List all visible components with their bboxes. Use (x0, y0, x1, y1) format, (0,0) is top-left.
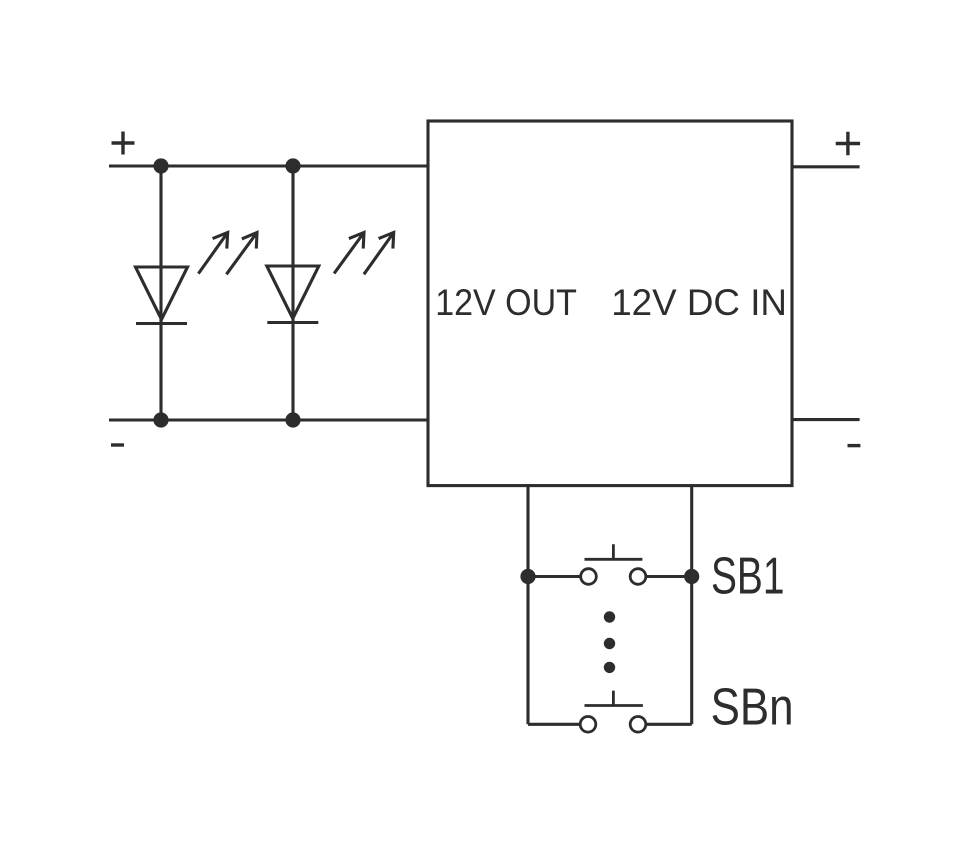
LED D2 cathode bar (267, 321, 318, 324)
minus terminal right (848, 444, 861, 447)
LED D1 light arrow 1 (198, 233, 227, 274)
node junction SB1 left (520, 569, 535, 584)
ellipsis dot 1 (604, 611, 615, 622)
plus terminal left (112, 132, 135, 155)
minus terminal left (111, 443, 124, 446)
LED D2 light arrow 2 (364, 233, 394, 275)
node junction top rail at LED2 (285, 158, 300, 173)
wire right rail bottom (792, 418, 860, 421)
wire left drop from box (526, 486, 529, 725)
wire LED1 vertical (159, 166, 162, 420)
wire SBn row left segment (528, 723, 580, 726)
pushbutton SB1 contact right (630, 569, 646, 585)
LED D2 light arrow 1 (334, 233, 364, 274)
pushbutton SBn contact right (630, 717, 646, 733)
svg-text:SB1: SB1 (711, 548, 785, 606)
wire SB1 row left segment (528, 575, 581, 578)
pushbutton SBn contact left (580, 717, 596, 733)
wire right drop from box (690, 486, 693, 725)
pushbutton SB1 actuator (585, 544, 643, 559)
wire right rail top (792, 165, 860, 168)
plus terminal right (836, 132, 860, 156)
ellipsis dot 2 (604, 638, 615, 649)
node junction bottom rail at LED2 (285, 412, 300, 427)
svg-text:12V OUT: 12V OUT (435, 282, 577, 323)
LED D1 triangle (136, 267, 188, 320)
LED D1 cathode bar (136, 322, 187, 325)
wire SB1 row right segment (646, 575, 692, 578)
pushbutton SBn actuator (585, 691, 643, 706)
LED D2 triangle (267, 266, 319, 319)
LED D1 light arrow 2 (226, 233, 257, 275)
power supply box U1 (428, 121, 792, 486)
node junction top rail at LED1 (153, 158, 168, 173)
pushbutton SB1 contact left (581, 569, 597, 585)
node junction bottom rail at LED1 (153, 412, 168, 427)
svg-text:12V DC IN: 12V DC IN (611, 282, 787, 323)
node junction SB1 right (684, 569, 699, 584)
wire LED2 vertical (291, 166, 294, 420)
svg-text:SBn: SBn (711, 678, 794, 736)
wire top rail left (109, 164, 428, 167)
wire SBn row right segment (646, 723, 692, 726)
wire bottom rail left (109, 418, 428, 421)
ellipsis dot 3 (604, 662, 615, 673)
